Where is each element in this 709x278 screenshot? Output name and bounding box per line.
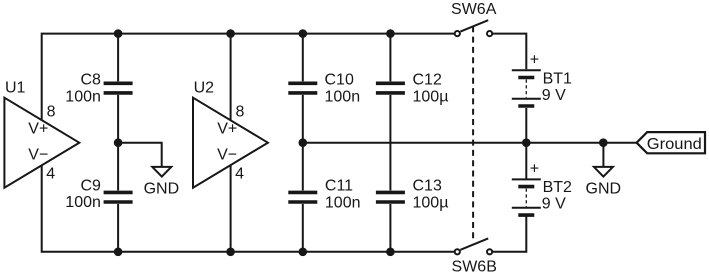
svg-text:BT2: BT2 <box>543 179 572 196</box>
svg-text:100µ: 100µ <box>413 88 449 105</box>
svg-text:+: + <box>530 160 539 177</box>
svg-text:C12: C12 <box>413 71 442 88</box>
svg-text:SW6B: SW6B <box>452 258 497 275</box>
svg-text:9 V: 9 V <box>542 87 566 104</box>
svg-text:C11: C11 <box>325 178 353 195</box>
svg-text:BT1: BT1 <box>543 71 572 88</box>
svg-text:100n: 100n <box>325 195 361 212</box>
svg-text:GND: GND <box>586 181 622 198</box>
svg-text:V−: V− <box>217 146 237 163</box>
svg-text:GND: GND <box>144 181 180 198</box>
svg-text:100n: 100n <box>65 89 101 106</box>
svg-text:8: 8 <box>47 103 56 120</box>
svg-text:+: + <box>530 51 539 68</box>
svg-text:4: 4 <box>46 165 55 182</box>
svg-text:9 V: 9 V <box>542 196 566 213</box>
svg-text:C9: C9 <box>80 177 101 194</box>
svg-text:C13: C13 <box>413 178 442 195</box>
svg-text:C8: C8 <box>80 71 101 88</box>
svg-text:U2: U2 <box>194 79 215 96</box>
svg-text:V−: V− <box>28 146 48 163</box>
svg-text:U1: U1 <box>5 79 26 96</box>
svg-text:100n: 100n <box>325 88 361 105</box>
svg-text:V+: V+ <box>217 121 237 138</box>
svg-text:4: 4 <box>235 165 244 182</box>
svg-text:100n: 100n <box>65 194 101 211</box>
svg-text:100µ: 100µ <box>413 195 449 212</box>
svg-text:Ground: Ground <box>647 136 702 153</box>
svg-text:V+: V+ <box>28 121 48 138</box>
svg-text:8: 8 <box>236 103 245 120</box>
svg-text:C10: C10 <box>325 71 354 88</box>
svg-text:SW6A: SW6A <box>451 1 497 18</box>
